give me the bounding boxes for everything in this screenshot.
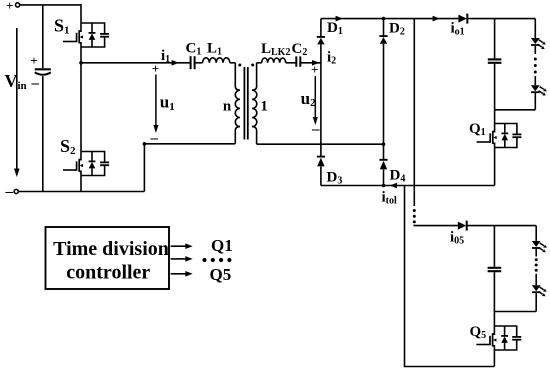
capacitor C2 xyxy=(296,56,300,66)
capacitor C1 xyxy=(191,56,195,69)
wire C1 to L1 xyxy=(195,62,202,64)
svg-text:+: + xyxy=(152,61,159,76)
node D4 bottom junction xyxy=(382,184,386,188)
wire secondary bottom to bridge xyxy=(257,143,384,145)
node + input terminal top xyxy=(16,3,20,7)
node bridge right midpoint xyxy=(382,142,386,146)
dotted link LED string 1 xyxy=(534,58,537,74)
svg-text:–: – xyxy=(31,75,40,91)
svg-text:Q5: Q5 xyxy=(210,265,232,284)
transformer T1 secondary winding 1 xyxy=(252,63,257,144)
diode D4 xyxy=(379,160,387,170)
arrow gate drive 1 xyxy=(171,243,193,249)
svg-text:+: + xyxy=(6,0,13,13)
transformer T1 primary winding n xyxy=(235,63,240,144)
arrow gate drive 5 xyxy=(171,271,193,277)
svg-text:1: 1 xyxy=(260,99,268,115)
svg-text:+: + xyxy=(30,53,37,68)
capacitor Co1 xyxy=(488,19,502,110)
wire bottom input rail xyxy=(18,191,144,193)
svg-text:n: n xyxy=(223,98,232,114)
wire Q5 source down xyxy=(493,350,495,367)
wire after diode 5 xyxy=(467,225,537,227)
node D2 top junction xyxy=(382,17,386,21)
arrow top rail 1 xyxy=(336,16,343,22)
wire primary bottom return xyxy=(144,143,235,145)
node half-bridge midpoint xyxy=(79,61,83,65)
inductor L1 xyxy=(203,58,230,63)
wire DC- bottom rail xyxy=(321,185,495,187)
wire bridge right rail xyxy=(383,19,385,186)
wire output5 ground return xyxy=(405,186,495,367)
wire bridge left rail xyxy=(320,19,322,186)
wire output feed line (to ch2-5) xyxy=(413,19,415,206)
LED string output 1 xyxy=(531,19,547,110)
node - input terminal bottom xyxy=(14,189,18,193)
svg-text:controller: controller xyxy=(66,261,150,283)
svg-text:Q1: Q1 xyxy=(211,236,233,255)
Vin arrow xyxy=(14,28,20,177)
wire i05 branch xyxy=(414,225,458,226)
transformer core xyxy=(244,67,247,140)
wire u1 minus branch xyxy=(143,144,145,192)
wire Q1 drain branch xyxy=(494,110,496,124)
wire L1 to transformer xyxy=(230,62,236,64)
wire top input rail xyxy=(20,5,81,23)
dotted link gate drives xyxy=(202,258,231,262)
wire DC+ top rail xyxy=(321,18,459,20)
diode D1 xyxy=(317,37,325,45)
arrow itol (points left) xyxy=(390,183,397,189)
wire Q5 drain branch xyxy=(493,312,495,327)
wire C2 to bridge xyxy=(300,62,321,64)
transistor S1 xyxy=(63,23,109,47)
arrow top rail 2 (io1) xyxy=(433,16,440,22)
arrow u1 xyxy=(153,75,158,134)
arrow i2 xyxy=(312,60,319,66)
inductor LLK2 xyxy=(262,58,286,63)
wire main primary wire i1 xyxy=(81,62,190,64)
dotted link feed line xyxy=(413,209,416,223)
transistor Q5 xyxy=(476,326,521,350)
transistor Q1 xyxy=(477,124,522,148)
node transformer secondary phase dot xyxy=(251,64,254,67)
wire output5 loop bottom xyxy=(494,311,536,313)
diode D2 xyxy=(379,36,387,44)
node transformer primary phase dot xyxy=(238,64,241,67)
diode output 5 series xyxy=(458,221,467,231)
wire LLK2 to C2 xyxy=(286,62,296,64)
svg-text:Time division: Time division xyxy=(53,238,169,260)
diode D3 xyxy=(317,157,325,167)
dotted link LED string 5 xyxy=(535,258,538,271)
transistor S2 xyxy=(63,152,109,176)
arrow u2 xyxy=(313,76,318,125)
svg-text:–: – xyxy=(5,184,14,200)
wire half-bridge mid branch xyxy=(80,47,82,152)
capacitor Co5 xyxy=(488,226,502,312)
diode output 1 series xyxy=(458,14,467,24)
controller box xyxy=(46,227,170,289)
wire secondary top to LLK2 xyxy=(257,62,262,64)
node u1 bottom junction xyxy=(143,142,147,146)
capacitor Cin xyxy=(35,5,51,192)
arrow gate drive mid xyxy=(171,256,193,262)
svg-text:–: – xyxy=(150,130,159,146)
LED string output 5 xyxy=(532,226,547,312)
svg-text:+: + xyxy=(311,62,318,77)
wire top rail after diode xyxy=(467,18,535,20)
svg-text:–: – xyxy=(311,122,320,138)
wire S2 source to rail xyxy=(80,176,82,192)
wire output1 loop bottom xyxy=(495,109,536,111)
wire Q1 source to rail xyxy=(494,148,496,186)
arrow i1 xyxy=(172,60,179,66)
